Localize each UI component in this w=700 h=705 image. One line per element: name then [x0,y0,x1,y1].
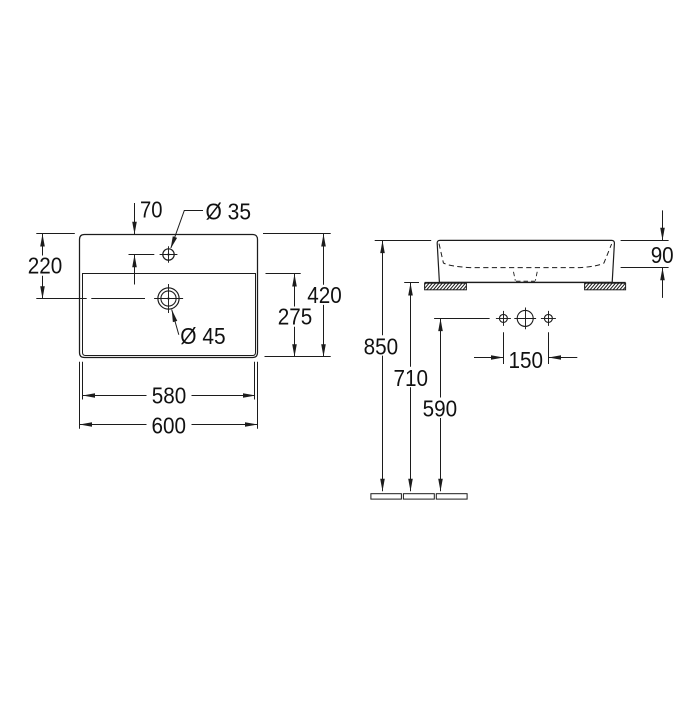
svg-text:580: 580 [152,383,187,409]
svg-text:Ø 45: Ø 45 [180,323,225,349]
svg-text:90: 90 [651,242,674,268]
svg-text:Ø 35: Ø 35 [206,198,252,224]
svg-text:590: 590 [423,396,458,422]
svg-text:850: 850 [364,333,399,359]
svg-text:420: 420 [307,282,342,308]
svg-text:220: 220 [28,253,63,279]
svg-text:600: 600 [151,413,186,439]
svg-text:150: 150 [508,347,543,373]
svg-text:275: 275 [278,304,313,330]
svg-text:70: 70 [140,196,163,222]
svg-text:710: 710 [393,365,428,391]
